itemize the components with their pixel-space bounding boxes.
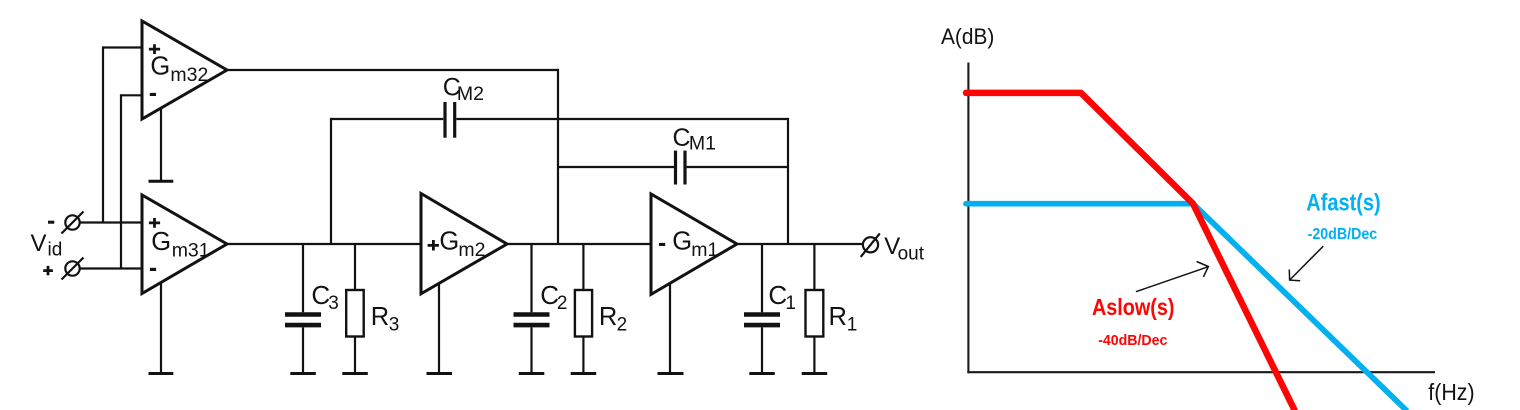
svg-text:A(dB): A(dB) [941, 24, 994, 49]
wire stub C2 to ground [530, 327, 532, 373]
svg-text:C: C [673, 124, 691, 152]
plus sign inside Gm32 [149, 44, 160, 54]
wire Gm32 output [226, 69, 558, 71]
svg-text:f(Hz): f(Hz) [1428, 379, 1474, 405]
op-amp Gm1 triangle [651, 194, 737, 294]
ground of R2 [571, 372, 597, 375]
plus sign inside Gm2 [428, 240, 439, 251]
arrow pointing to blue slope [1289, 246, 1323, 281]
arrow pointing to red slope [1136, 262, 1209, 292]
svg-text:Afast(s): Afast(s) [1306, 189, 1380, 216]
minus sign at negative input terminal [48, 221, 54, 224]
wire vertical from Gm32 - input down to node of Gm31 - input [120, 94, 122, 268]
wire stub main line to C3 [302, 244, 304, 312]
wire stub C3 to ground [302, 327, 304, 373]
svg-text:C: C [768, 280, 787, 310]
svg-text:3: 3 [389, 314, 400, 335]
ground of C3 [290, 372, 316, 375]
svg-text:-40dB/Dec: -40dB/Dec [1098, 333, 1167, 349]
wire stub main line to C2 [530, 244, 532, 312]
ground of Gm1 [658, 284, 684, 374]
wire CM2 horizontal left segment [331, 118, 443, 120]
capacitor C3 [285, 315, 321, 326]
wire stub main line to R1 [813, 244, 815, 290]
wire stub main line to R2 [582, 244, 584, 290]
svg-text:R: R [829, 303, 847, 331]
wire vertical riser at x=558 from Gm32 output to main line [557, 69, 559, 244]
svg-text:G: G [672, 228, 692, 256]
op-amp Gm32 triangle [142, 21, 227, 119]
svg-text:out: out [898, 244, 925, 265]
resistor R2 [575, 290, 592, 337]
ground of Gm31 [149, 283, 174, 374]
ground of Gm2 [427, 284, 453, 374]
wire stub R2 to ground [582, 337, 584, 374]
capacitor C1 [744, 315, 780, 326]
svg-text:m31: m31 [172, 239, 210, 261]
resistor R3 [346, 290, 364, 337]
ground of R3 [342, 372, 368, 375]
wire stub R3 to ground [354, 337, 356, 374]
wire stub C1 to ground [761, 327, 763, 373]
svg-text:2: 2 [617, 314, 628, 335]
svg-text:R: R [599, 303, 617, 331]
ground of C1 [749, 372, 775, 375]
wire vertical from Gm32 + input down to node of Gm31 + input [102, 46, 104, 222]
svg-text:-20dB/Dec: -20dB/Dec [1308, 226, 1378, 243]
minus sign inside Gm31 [150, 268, 156, 271]
svg-text:1: 1 [847, 314, 858, 335]
wire stub main line to C1 [761, 244, 763, 312]
svg-text:V: V [31, 230, 47, 257]
capacitor C2 [514, 315, 550, 326]
svg-text:2: 2 [557, 293, 568, 314]
input terminal circle (positive) [62, 258, 84, 280]
op-amp Gm31 triangle [142, 195, 227, 294]
svg-text:M2: M2 [457, 83, 484, 105]
plus sign at positive input terminal [43, 266, 53, 275]
svg-text:3: 3 [328, 293, 339, 314]
svg-text:G: G [439, 228, 459, 256]
ground of Gm32 [149, 107, 174, 181]
svg-text:1: 1 [785, 293, 796, 314]
wire stub R1 to ground [813, 337, 815, 374]
wire stub main line to R3 [354, 244, 356, 290]
input terminal circle (negative) [62, 212, 84, 234]
svg-text:id: id [48, 240, 63, 261]
ground of C2 [519, 372, 545, 375]
op-amp Gm2 triangle [421, 194, 507, 294]
wire CM2 horizontal right segment [456, 118, 788, 120]
svg-text:G: G [150, 53, 170, 81]
svg-text:m32: m32 [170, 64, 208, 86]
svg-text:Aslow(s): Aslow(s) [1092, 294, 1175, 320]
capacitor CM1 [676, 151, 686, 185]
curve Aslow(s) red [966, 93, 1295, 410]
capacitor CM2 [445, 102, 455, 138]
x axis f(Hz) [967, 371, 1435, 373]
wire CM1 horizontal left segment [558, 166, 674, 168]
wire CM1 horizontal right segment [687, 166, 788, 168]
curve Afast(s) blue [966, 204, 1406, 410]
wire from -input terminal to Gm31 + input [80, 221, 143, 223]
wire main signal line [226, 243, 863, 245]
wire vertical riser at x=331 from CM2 wire to main line [330, 118, 332, 244]
ground of R1 [802, 372, 828, 375]
wire vertical riser at x=788 joining CM2, CM1 to output node [787, 118, 789, 244]
svg-text:m1: m1 [691, 239, 718, 261]
resistor R1 [806, 290, 824, 337]
svg-text:R: R [371, 303, 389, 331]
plus sign inside Gm31 [149, 218, 160, 228]
wire Gm32 + input [103, 46, 142, 48]
svg-text:m2: m2 [458, 239, 485, 261]
minus sign inside Gm32 [150, 93, 156, 96]
svg-text:G: G [151, 228, 171, 256]
wire Gm32 - input [121, 94, 142, 96]
wire from +input terminal to Gm31 - input [80, 267, 143, 269]
minus sign inside Gm1 [659, 243, 665, 246]
svg-text:M1: M1 [689, 133, 716, 155]
y axis A(dB) [967, 63, 969, 374]
output terminal circle Vout [861, 233, 880, 257]
